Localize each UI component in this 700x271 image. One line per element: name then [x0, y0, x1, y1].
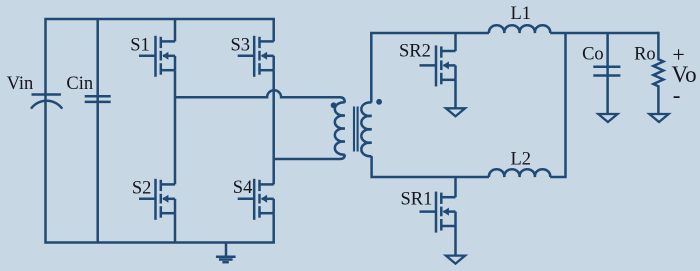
svg-text:L2: L2 [511, 149, 532, 169]
svg-text:-: - [673, 82, 681, 107]
svg-text:Vin: Vin [7, 74, 34, 94]
svg-text:S3: S3 [231, 36, 251, 56]
svg-text:S4: S4 [233, 178, 253, 198]
svg-text:Co: Co [582, 45, 604, 65]
svg-text:SR1: SR1 [401, 190, 433, 210]
svg-text:Ro: Ro [634, 45, 656, 65]
svg-text:SR2: SR2 [399, 41, 431, 61]
svg-text:Cin: Cin [66, 74, 93, 94]
svg-text:S1: S1 [130, 35, 150, 55]
svg-text:L1: L1 [511, 4, 532, 24]
svg-text:S2: S2 [132, 178, 152, 198]
